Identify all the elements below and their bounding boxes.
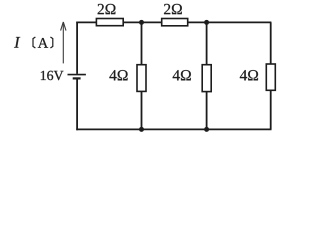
resistor 4 ohm branch 1 (vertical box) bbox=[137, 65, 146, 92]
label bracket right of A bbox=[50, 37, 52, 48]
wire branch 1 vertical bbox=[141, 22, 143, 129]
resistor 4 ohm branch 3 (vertical box) bbox=[266, 64, 275, 90]
junction dot bottom branch 2 bbox=[204, 127, 209, 132]
resistor 2 ohm left (horizontal box) bbox=[96, 19, 123, 26]
battery 16V short plate (negative) bbox=[73, 77, 81, 79]
battery 16V long plate (positive) bbox=[68, 74, 86, 76]
junction dot top branch 2 bbox=[204, 20, 209, 25]
resistor 2 ohm right (horizontal box) bbox=[162, 19, 188, 26]
junction dot top branch 1 bbox=[139, 20, 144, 25]
wire top rail node a-b bbox=[76, 21, 271, 23]
wire left side bbox=[76, 22, 78, 131]
value label 2 ohm right bbox=[164, 4, 182, 14]
label A (ampere unit) bbox=[38, 38, 48, 48]
wire branch 2 vertical bbox=[206, 22, 208, 129]
label I (current symbol) bbox=[14, 37, 20, 48]
junction dot bottom branch 1 bbox=[139, 127, 144, 132]
resistor 4 ohm branch 2 (vertical box) bbox=[202, 65, 211, 92]
value label 4 ohm branch 2 bbox=[173, 70, 191, 80]
value label 16V bbox=[41, 71, 64, 80]
wire right side bbox=[270, 22, 272, 129]
value label 2 ohm left bbox=[98, 4, 116, 14]
wire bottom rail bbox=[76, 128, 271, 130]
current arrow I shaft bbox=[62, 23, 64, 63]
current arrow I head bbox=[61, 22, 66, 31]
label bracket left of A bbox=[33, 37, 35, 48]
value label 4 ohm branch 3 bbox=[240, 70, 258, 80]
value label 4 ohm branch 1 bbox=[109, 70, 127, 80]
